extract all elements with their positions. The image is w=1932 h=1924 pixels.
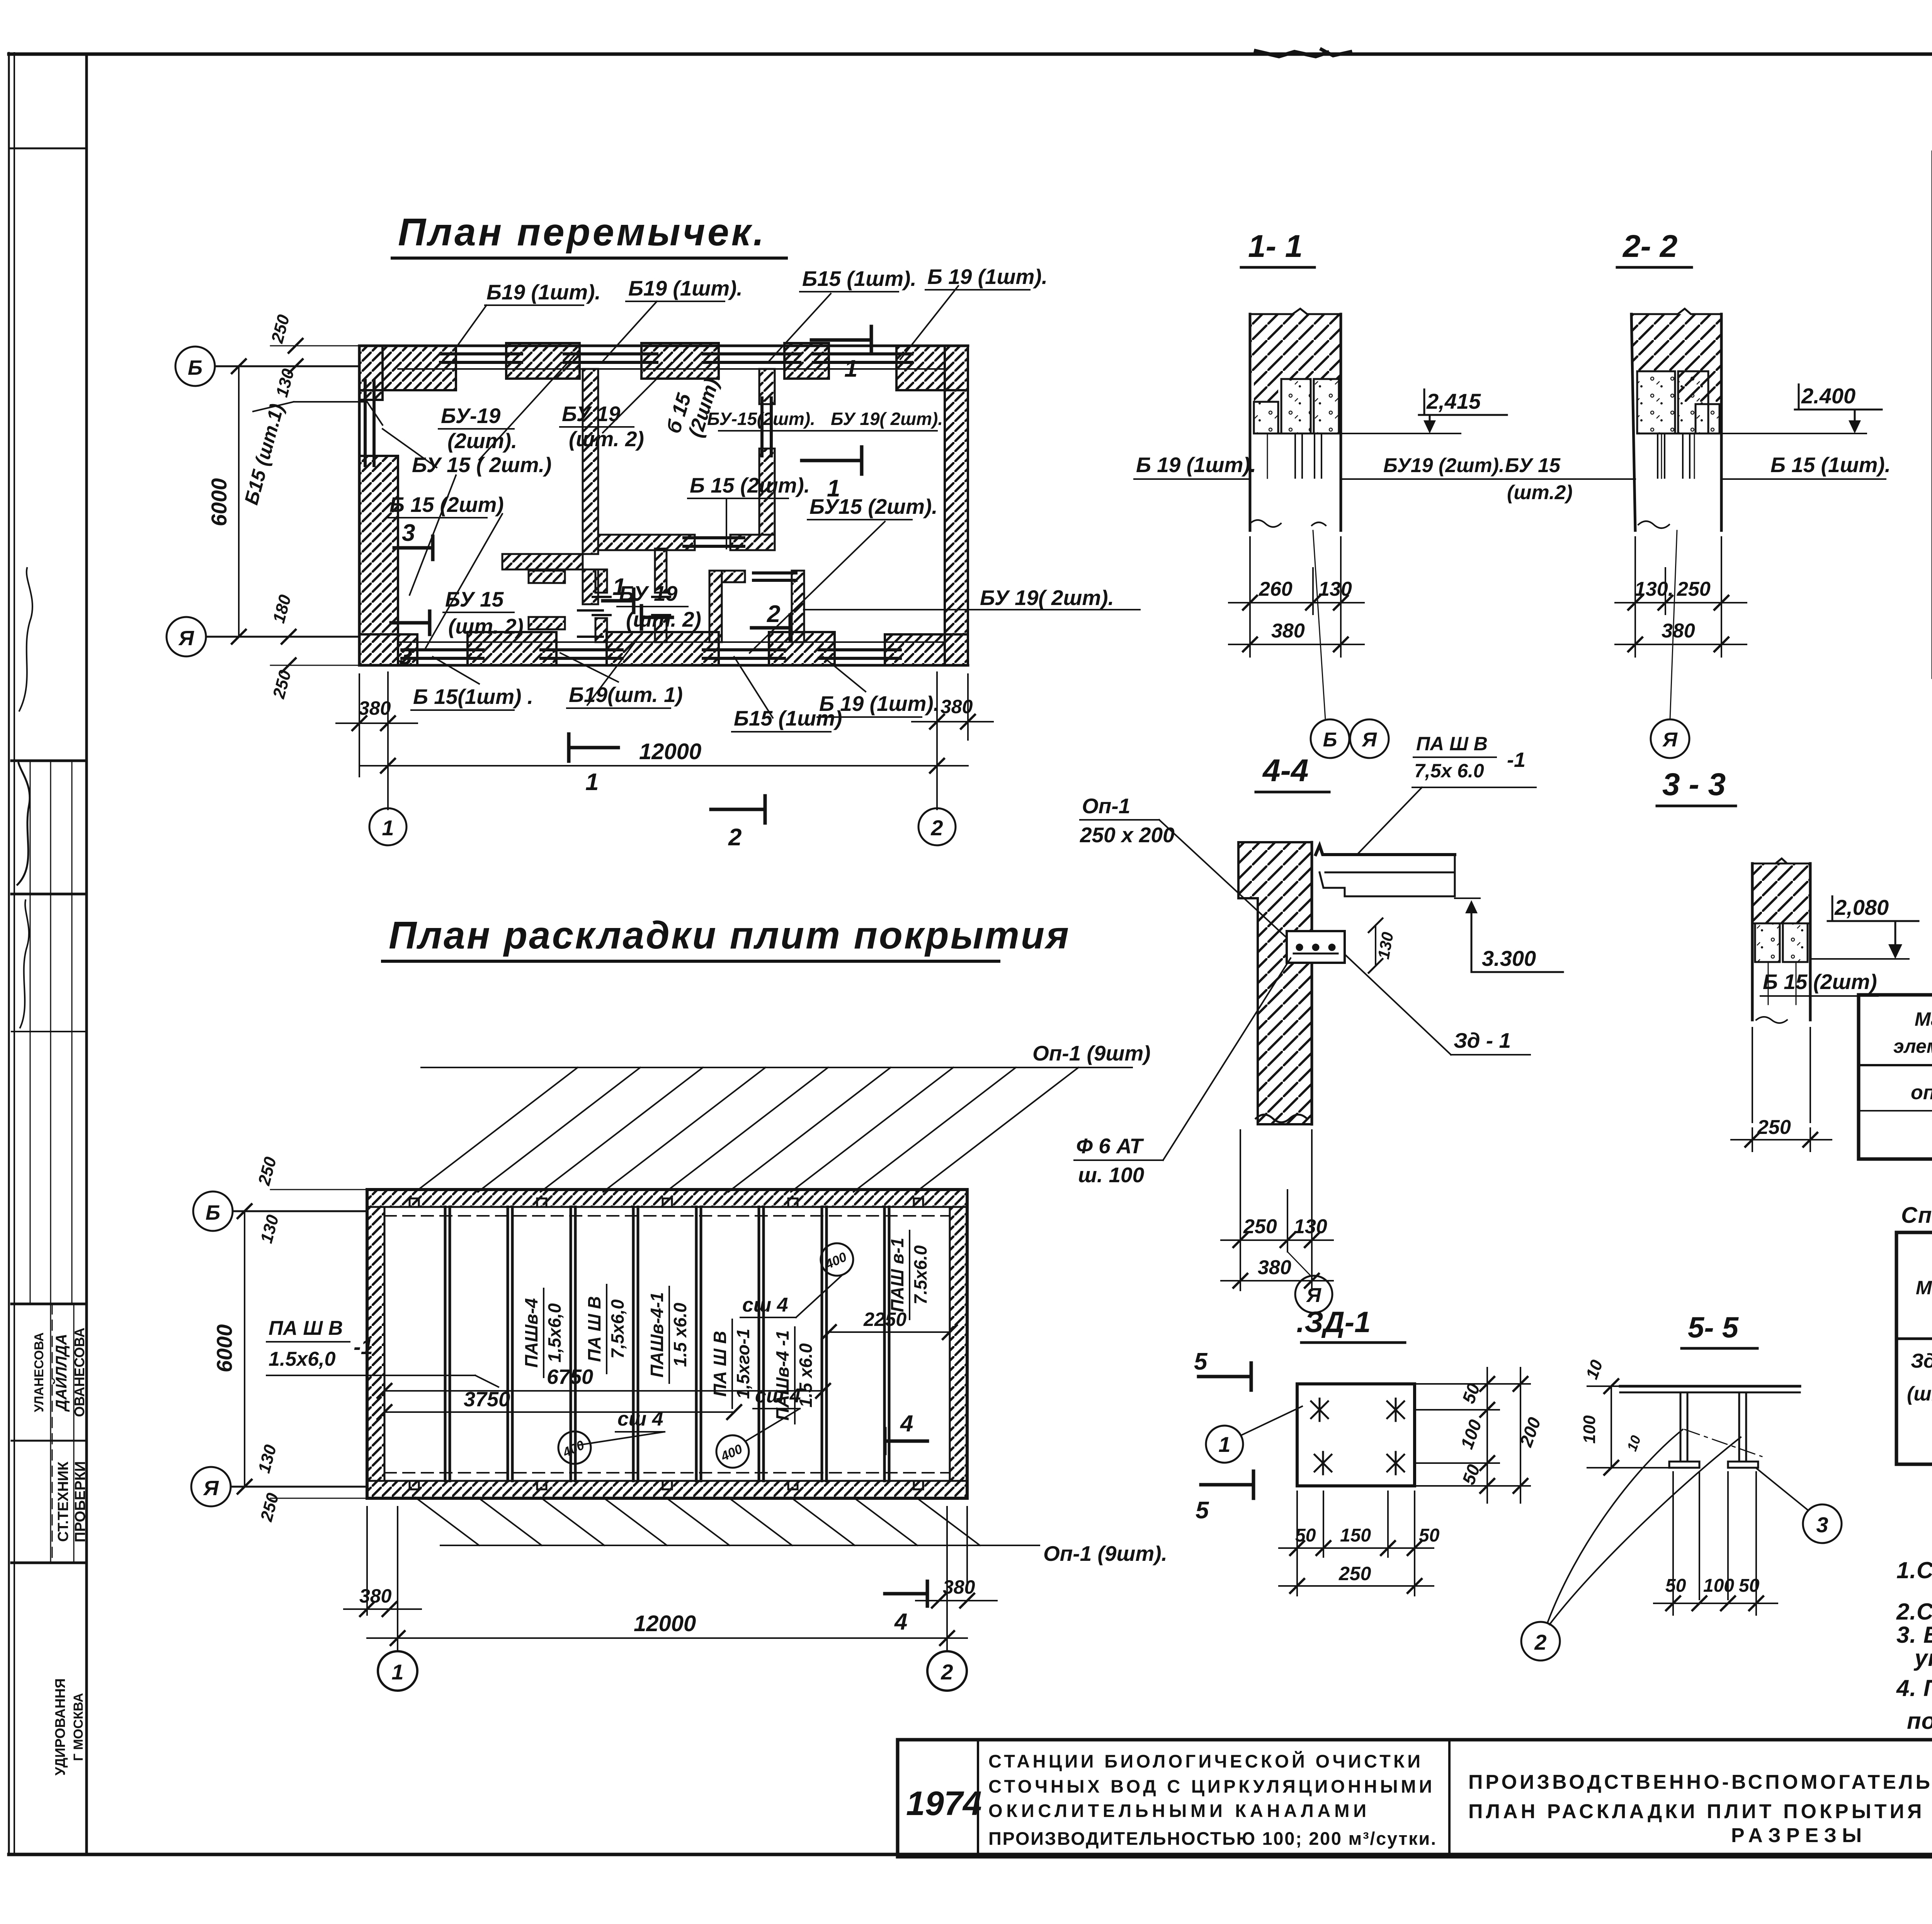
svg-text:Я: Я [202, 1477, 219, 1500]
section flag 5 upper [1199, 1375, 1251, 1378]
svg-text:(шт. 18): (шт. 18) [1907, 1383, 1932, 1405]
label underlines [388, 290, 1030, 732]
svg-text:РАЗРЕЗЫ: РАЗРЕЗЫ [1731, 1824, 1862, 1847]
section flags 4 [885, 1429, 927, 1606]
svg-text:Ф 6 АТ: Ф 6 АТ [1076, 1134, 1144, 1158]
svg-text:4-4: 4-4 [1262, 753, 1309, 788]
svg-text:50: 50 [1419, 1525, 1440, 1546]
svg-text:12000: 12000 [634, 1611, 696, 1636]
svg-text:5: 5 [1196, 1497, 1209, 1524]
axis circles and dims, lintel plan [167, 346, 361, 665]
svg-text:Марка: Марка [1915, 1008, 1932, 1030]
svg-text:100: 100 [1580, 1415, 1599, 1444]
svg-text:Я: Я [1361, 729, 1377, 751]
svg-text:Спецификация стали на 1 штуку: Спецификация стали на 1 штуку каждой мар… [1901, 1203, 1932, 1228]
svg-text:План перемычек.: План перемычек. [398, 211, 766, 254]
left stamp strip cells [9, 148, 87, 1563]
svg-text:Б 15 (2шт): Б 15 (2шт) [1763, 970, 1877, 994]
svg-text:6000: 6000 [212, 1324, 236, 1373]
svg-text:Зд - 1: Зд - 1 [1454, 1028, 1511, 1052]
svg-text:БУ 19( 2шт).: БУ 19( 2шт). [980, 586, 1114, 610]
svg-text:250: 250 [1677, 578, 1711, 600]
dash-dot line [1685, 1429, 1762, 1457]
svg-text:сш 4: сш 4 [755, 1385, 801, 1407]
axis circles 1-1 [1313, 530, 1325, 719]
svg-text:1: 1 [827, 475, 840, 502]
svg-text:ПРОИЗВОДСТВЕННО-ВСПОМОГАТЕЛЬНЫ: ПРОИЗВОДСТВЕННО-ВСПОМОГАТЕЛЬНЫЙ БЛОК. [1468, 1771, 1932, 1793]
svg-text:Я: Я [1306, 1284, 1321, 1307]
svg-text:380: 380 [940, 696, 973, 717]
svg-text:130.: 130. [1634, 578, 1673, 600]
slab plan walls [367, 1190, 967, 1498]
title block [898, 1740, 1932, 1857]
svg-text:Б 15 (1шт).: Б 15 (1шт). [1770, 453, 1891, 477]
top wall lintels across openings [440, 354, 912, 362]
svg-text:6750: 6750 [547, 1365, 593, 1389]
svg-text:50: 50 [1739, 1576, 1760, 1596]
svg-text:СТОЧНЫХ ВОД С ЦИРКУЛЯЦИОННЫМИ: СТОЧНЫХ ВОД С ЦИРКУЛЯЦИОННЫМИ [988, 1776, 1433, 1797]
svg-text:12000: 12000 [639, 739, 701, 764]
svg-text:Оп-1 (9шт): Оп-1 (9шт) [1032, 1041, 1151, 1065]
svg-text:2,415: 2,415 [1426, 389, 1481, 413]
dims 2-2 [1615, 537, 1747, 657]
svg-text:Б 19 (1шт).: Б 19 (1шт). [1136, 453, 1256, 477]
svg-text:(2шт).: (2шт). [447, 429, 517, 453]
svg-text:1: 1 [844, 355, 857, 382]
dim 250 [1731, 1128, 1832, 1151]
svg-text:СТ.ТЕХНИК: СТ.ТЕХНИК [55, 1461, 71, 1542]
partition P1 vertical [502, 369, 598, 604]
svg-text:(шт. 2): (шт. 2) [626, 607, 701, 631]
svg-text:5- 5: 5- 5 [1688, 1311, 1739, 1344]
slab joints (double vertical lines) [445, 1207, 889, 1481]
svg-text:-1: -1 [354, 1334, 373, 1359]
csh4 labels with leaders [617, 1294, 801, 1430]
svg-text:250: 250 [1243, 1215, 1277, 1238]
top wall outer/inner lines [359, 345, 968, 347]
slab plan axes [191, 1190, 369, 1506]
partition P2 vertical with lintel [759, 369, 775, 535]
svg-text:4: 4 [894, 1609, 907, 1635]
svg-text:ОКИСЛИТЕЛЬНЫМИ КАНАЛАМИ: ОКИСЛИТЕЛЬНЫМИ КАНАЛАМИ [988, 1800, 1367, 1821]
svg-text:250 х 200: 250 х 200 [1080, 823, 1175, 847]
svg-text:380: 380 [359, 697, 391, 719]
dims 4-4 bottom [1221, 1130, 1333, 1290]
axis circle 4-4 [1287, 1252, 1310, 1275]
left wall [359, 346, 398, 665]
section flags plan 1 [391, 326, 871, 823]
svg-text:1974: 1974 [906, 1784, 982, 1822]
svg-text:ПА Ш В: ПА Ш В [269, 1317, 343, 1339]
dashed slab bearing lines [384, 1215, 950, 1217]
svg-text:2,080: 2,080 [1834, 895, 1889, 920]
svg-text:1,5х6,0: 1,5х6,0 [544, 1303, 565, 1363]
left dims 5-5 [1587, 1386, 1669, 1468]
dims 1-1 [1229, 537, 1364, 657]
svg-text:7.5х6.0: 7.5х6.0 [910, 1245, 930, 1305]
400 circles [558, 1243, 853, 1468]
wall 1-1 [1250, 309, 1341, 530]
section flag 5 lower [1201, 1483, 1253, 1487]
svg-text:130: 130 [1318, 578, 1352, 600]
svg-text:УДИРОВАННЯ: УДИРОВАННЯ [52, 1678, 68, 1776]
wall H2 horizontal [598, 535, 695, 550]
svg-text:1- 1: 1- 1 [1248, 229, 1303, 264]
svg-text:Оп-1: Оп-1 [1082, 794, 1130, 818]
svg-text:укладывать рядовые перемычки.: укладывать рядовые перемычки. [1913, 1645, 1932, 1671]
svg-text:ш. 100: ш. 100 [1078, 1163, 1145, 1187]
svg-text:Б19 (1шт).: Б19 (1шт). [486, 280, 601, 304]
right dims of plate [1415, 1368, 1530, 1503]
plate [1297, 1384, 1415, 1486]
svg-text:Марка.: Марка. [1916, 1277, 1932, 1299]
svg-text:БУ-19: БУ-19 [441, 404, 501, 428]
svg-text:1.Сборные перемычки класть на: 1.Сборные перемычки класть на цементный … [1896, 1557, 1932, 1583]
svg-text:ПРОИЗВОДИТЕЛЬНОСТЬЮ 100; 200 м: ПРОИЗВОДИТЕЛЬНОСТЬЮ 100; 200 м³/сутки. [988, 1828, 1437, 1849]
svg-text:1: 1 [612, 574, 626, 600]
break mark [1250, 520, 1281, 527]
svg-text:Б 19 (1шт).: Б 19 (1шт). [819, 692, 939, 716]
svg-text:380: 380 [359, 1585, 392, 1607]
svg-text:БУ-15(2шт).: БУ-15(2шт). [707, 409, 815, 429]
lintel plan labels [389, 265, 1114, 730]
internal dims 6750 / 3750 / 2250 [384, 1332, 950, 1412]
svg-text:(шт.2): (шт.2) [1507, 481, 1573, 504]
small room partitions center-bottom [529, 549, 667, 642]
svg-text:ПРОБЕРКИ: ПРОБЕРКИ [72, 1461, 88, 1542]
diagonal fan to OP-1 top [415, 1067, 1132, 1192]
bottom right small room [709, 571, 804, 642]
slab at right [1316, 845, 1455, 896]
P1 door lintel ticks [578, 609, 603, 612]
svg-text:(шт. 2): (шт. 2) [569, 427, 644, 451]
svg-text:сш 4: сш 4 [617, 1408, 663, 1430]
svg-text:Г МОСКВА: Г МОСКВА [71, 1693, 86, 1761]
svg-text:250: 250 [1757, 1116, 1791, 1139]
svg-text:7,5х6,0: 7,5х6,0 [607, 1299, 628, 1359]
lintel blocks 1-1 [1254, 379, 1278, 402]
hanging tails [1294, 433, 1296, 478]
bottom dim 12000 slab plan [344, 1507, 997, 1650]
svg-text:оп -1: оп -1 [1911, 1081, 1932, 1104]
svg-text:2: 2 [930, 816, 943, 840]
svg-text:2250: 2250 [863, 1309, 906, 1330]
left wall lintel (vertical pair) [364, 381, 367, 466]
svg-text:4: 4 [900, 1411, 913, 1436]
svg-text:2: 2 [940, 1660, 953, 1684]
svg-text:3750: 3750 [464, 1388, 510, 1411]
svg-text:сш 4: сш 4 [742, 1294, 788, 1316]
svg-text:Б19(шт. 1): Б19(шт. 1) [569, 683, 683, 707]
anchor marks [1311, 1399, 1404, 1474]
svg-text:ПАШв-4: ПАШв-4 [521, 1298, 541, 1368]
leader circle 2 [1521, 1622, 1560, 1661]
svg-text:Зд -1: Зд -1 [1911, 1350, 1932, 1372]
svg-text:УЛАНЕСОВА: УЛАНЕСОВА [32, 1333, 46, 1412]
svg-text:50: 50 [1295, 1525, 1316, 1546]
axis circle 2-2 [1670, 530, 1677, 719]
svg-text:250: 250 [1338, 1563, 1371, 1584]
OP-1 pad [1287, 931, 1345, 963]
svg-text:Б: Б [188, 356, 202, 379]
svg-text:Б19 (1шт).: Б19 (1шт). [628, 276, 743, 300]
svg-text:подушки и приваривать к заклад: подушки и приваривать к закладным ЗД-1. [1907, 1708, 1932, 1734]
svg-text:1: 1 [585, 769, 599, 795]
leader lines lintel plan [383, 286, 1140, 718]
svg-text:Б: Б [1323, 729, 1337, 751]
svg-text:ДАЙЛЛДА: ДАЙЛЛДА [52, 1334, 70, 1412]
svg-text:130: 130 [1294, 1215, 1327, 1238]
svg-text:ОВАНЕСОВА: ОВАНЕСОВА [71, 1327, 87, 1417]
svg-text:ПАШ в-1: ПАШ в-1 [887, 1238, 907, 1312]
svg-text:1: 1 [391, 1660, 403, 1684]
svg-text:3 - 3: 3 - 3 [1662, 767, 1726, 802]
svg-text:БУ 15: БУ 15 [1505, 454, 1561, 477]
bottom dims of plate [1279, 1491, 1434, 1596]
svg-text:380: 380 [1271, 620, 1305, 642]
svg-text:5: 5 [1194, 1348, 1208, 1375]
svg-text:Б 19 (1шт).: Б 19 (1шт). [927, 265, 1048, 289]
svg-text:380: 380 [1258, 1256, 1291, 1279]
bottom wall [359, 664, 968, 667]
svg-text:3. Во всех перегородках толщин: 3. Во всех перегородках толщиной 120 мм [1896, 1622, 1932, 1648]
dim 130 beside pad [1375, 925, 1376, 966]
top plate [1620, 1385, 1800, 1388]
svg-text:Б 15 (2шт).: Б 15 (2шт). [690, 473, 810, 497]
leader circle 3 [1803, 1504, 1842, 1543]
lintel blocks 2-2 [1637, 371, 1675, 433]
svg-text:БУ19 (2шт).: БУ19 (2шт). [1383, 454, 1505, 477]
svg-text:ПА Ш В: ПА Ш В [584, 1296, 604, 1362]
svg-text:150: 150 [1340, 1525, 1371, 1546]
svg-text:3: 3 [402, 520, 415, 546]
svg-text:2: 2 [728, 824, 742, 851]
svg-text:2: 2 [1534, 1630, 1546, 1654]
svg-text:СТАНЦИИ БИОЛОГИЧЕСКОЙ ОЧИСТКИ: СТАНЦИИ БИОЛОГИЧЕСКОЙ ОЧИСТКИ [988, 1751, 1421, 1771]
svg-text:Я: Я [178, 627, 194, 650]
svg-text:380: 380 [1662, 620, 1695, 642]
svg-text:2.Сварку производить электрода: 2.Сварку производить электродами Э-42. [1896, 1599, 1932, 1625]
svg-text:1.5х6,0: 1.5х6,0 [269, 1348, 336, 1370]
svg-text:элемента: элемента [1893, 1035, 1932, 1057]
svg-text:1,5хго-1: 1,5хго-1 [733, 1329, 753, 1399]
svg-text:Б 15(1шт) .: Б 15(1шт) . [413, 685, 533, 709]
svg-text:1: 1 [382, 816, 394, 840]
svg-text:БУ 15 ( 2шт.): БУ 15 ( 2шт.) [412, 453, 551, 477]
stamp signatures scribble [17, 763, 30, 885]
svg-text:-1: -1 [1507, 748, 1526, 772]
svg-text:50: 50 [1665, 1576, 1686, 1596]
rotated slab marks [521, 1231, 930, 1424]
svg-text:(шт. 2): (шт. 2) [448, 614, 524, 638]
svg-text:ПАШв-4-1: ПАШв-4-1 [647, 1292, 667, 1378]
svg-text:1.5 х6.0: 1.5 х6.0 [670, 1302, 690, 1367]
svg-text:План раскладки плит покрытия: План раскладки плит покрытия [389, 914, 1070, 957]
svg-text:3.300: 3.300 [1482, 946, 1536, 970]
anchor ticks on walls [410, 1198, 923, 1489]
svg-text:260: 260 [1259, 578, 1293, 600]
svg-text:2.400: 2.400 [1801, 384, 1855, 408]
svg-text:БУ 15: БУ 15 [445, 587, 504, 611]
svg-text:4. Плиты покрытия укладывать н: 4. Плиты покрытия укладывать на опорные [1896, 1675, 1932, 1701]
bottom dimension 12000 [336, 672, 993, 809]
svg-text:380: 380 [943, 1576, 975, 1598]
svg-text:6000: 6000 [207, 478, 231, 527]
svg-text:.ЗД-1: .ЗД-1 [1296, 1306, 1371, 1339]
svg-text:БУ 19( 2шт).: БУ 19( 2шт). [831, 409, 943, 429]
svg-text:БУ 19: БУ 19 [562, 402, 621, 426]
svg-text:2: 2 [767, 601, 780, 627]
level 3.300 [1465, 900, 1478, 913]
wall 4-4 [1238, 842, 1312, 1124]
svg-text:100: 100 [1703, 1576, 1734, 1596]
svg-text:7,5х 6.0: 7,5х 6.0 [1414, 760, 1484, 782]
svg-text:Я: Я [1662, 729, 1678, 751]
top wall hatched piers [359, 343, 968, 390]
right wall [945, 346, 968, 665]
svg-text:Б 15 (2шт): Б 15 (2шт) [389, 493, 504, 517]
svg-text:Б: Б [206, 1201, 220, 1224]
bottom dims 5-5 [1654, 1472, 1777, 1615]
svg-text:3: 3 [399, 643, 412, 670]
svg-text:Б15 (1шт).: Б15 (1шт). [802, 267, 917, 291]
svg-text:Оп-1 (9шт).: Оп-1 (9шт). [1043, 1542, 1167, 1565]
pos circle 1 [1206, 1426, 1243, 1463]
svg-text:1: 1 [1218, 1432, 1230, 1457]
svg-text:ПА Ш В: ПА Ш В [1416, 733, 1488, 755]
diagonal fan to OP-1 bottom [415, 1497, 1039, 1545]
scan marks on top edge [1256, 51, 1327, 56]
studs [1669, 1392, 1758, 1468]
svg-text:ПА Ш В: ПА Ш В [710, 1331, 730, 1397]
svg-text:2- 2: 2- 2 [1622, 229, 1677, 264]
svg-text:3: 3 [1816, 1513, 1828, 1537]
